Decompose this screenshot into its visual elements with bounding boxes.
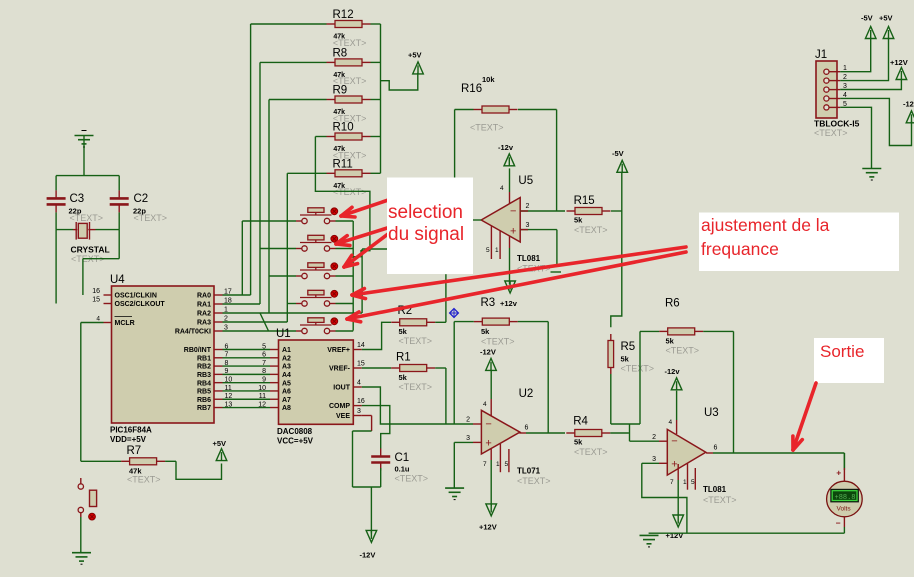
- svg-text:RB1: RB1: [197, 355, 211, 362]
- svg-text:RB7: RB7: [197, 405, 211, 412]
- svg-text:Sortie: Sortie: [820, 342, 864, 361]
- svg-text:VCC=+5V: VCC=+5V: [277, 437, 314, 446]
- svg-text:6: 6: [262, 352, 266, 359]
- pin A3 U1: [270, 364, 291, 371]
- wire VREF+ to R2: [362, 322, 391, 349]
- power +12V (J1): [890, 58, 908, 80]
- wire RA2 to RA4 diagonal: [260, 313, 269, 331]
- wire U2 pin3 to ground: [453, 442, 455, 488]
- svg-text:5k: 5k: [666, 337, 675, 346]
- indicator dot SW6: [89, 513, 96, 520]
- svg-text:<TEXT>: <TEXT>: [621, 364, 655, 374]
- wire J1 pin2 to +5V: [840, 38, 888, 81]
- svg-text:4: 4: [96, 316, 100, 323]
- svg-text:+: +: [836, 468, 841, 478]
- annotation arrow Sortie: [793, 383, 816, 450]
- svg-text:IOUT: IOUT: [333, 385, 350, 392]
- pin RA1 U4: [197, 298, 232, 309]
- pin A6 U1: [270, 389, 291, 396]
- svg-text:U3: U3: [704, 407, 719, 419]
- pin A8 U1: [270, 405, 291, 412]
- svg-text:6: 6: [525, 425, 529, 432]
- svg-text:−: −: [485, 419, 491, 431]
- wire RB1 to A2: [223, 352, 271, 359]
- svg-text:R1: R1: [396, 352, 411, 364]
- pins 1 5 U3 bottom: [683, 464, 695, 490]
- indicator dot SW4: [331, 290, 338, 297]
- svg-text:RA1: RA1: [197, 302, 211, 309]
- svg-text:RB4: RB4: [197, 380, 211, 387]
- svg-text:2: 2: [652, 434, 656, 441]
- svg-text:+12v: +12v: [500, 299, 518, 308]
- pin VEE U1: [336, 408, 362, 420]
- op-amp U2 TL071: [481, 410, 520, 454]
- svg-text:-5V: -5V: [612, 149, 624, 158]
- svg-text:-12V: -12V: [903, 100, 914, 109]
- resistor R3 5k: [454, 318, 548, 325]
- svg-text:12: 12: [258, 401, 266, 408]
- svg-text:15: 15: [357, 361, 365, 368]
- button SW1: [296, 208, 336, 224]
- svg-text:6: 6: [714, 445, 718, 452]
- svg-text:CRYSTAL: CRYSTAL: [71, 245, 110, 255]
- wire R4/R5/R6 junction to U3 pin2: [611, 424, 659, 441]
- wire IOUT to U2 pin2: [362, 387, 473, 424]
- svg-text:<TEXT>: <TEXT>: [127, 475, 161, 485]
- svg-text:<TEXT>: <TEXT>: [703, 495, 737, 505]
- power +5V (J1): [879, 14, 894, 39]
- svg-text:R4: R4: [573, 416, 588, 428]
- svg-text:A6: A6: [282, 389, 291, 396]
- svg-text:A5: A5: [282, 380, 291, 387]
- pin 3 U3: [642, 456, 668, 464]
- svg-text:+12V: +12V: [666, 531, 684, 540]
- svg-text:5: 5: [691, 479, 695, 486]
- svg-text:C3: C3: [70, 193, 85, 205]
- svg-text:A8: A8: [282, 405, 291, 412]
- annotation arrow selection 3: [344, 225, 400, 267]
- pin RB1 U4: [197, 352, 229, 363]
- wire switch to ground: [80, 517, 82, 553]
- svg-text:A3: A3: [282, 364, 291, 371]
- svg-text:-12V: -12V: [480, 348, 496, 357]
- svg-text:PIC16F84A: PIC16F84A: [110, 426, 152, 435]
- button SW3: [296, 263, 336, 279]
- svg-text:10: 10: [258, 385, 266, 392]
- capacitor C3: [47, 176, 66, 213]
- indicator dot SW1: [331, 208, 338, 215]
- wire R3 left down to pin2 node: [453, 322, 455, 424]
- svg-text:R9: R9: [333, 85, 348, 97]
- pin 7 U5 supply bottom: [509, 237, 511, 285]
- wire R2 right up to U5 output node: [445, 274, 447, 322]
- pin A5 U1: [270, 380, 291, 387]
- svg-text:RB0/INT: RB0/INT: [184, 347, 212, 354]
- voltmeter terminals: [836, 453, 845, 533]
- svg-text:R16: R16: [461, 83, 482, 95]
- resistor R5 5k: [608, 334, 614, 374]
- svg-text:U4: U4: [110, 274, 125, 286]
- wire U3 output to voltmeter: [706, 445, 844, 471]
- resistor R11 47k: [287, 170, 380, 177]
- svg-text:J1: J1: [815, 49, 827, 61]
- pin IOUT U1: [333, 380, 362, 392]
- svg-text:+12V: +12V: [479, 523, 497, 532]
- diamond marker: [450, 309, 459, 318]
- svg-text:<TEXT>: <TEXT>: [395, 474, 429, 484]
- svg-text:3: 3: [466, 435, 470, 442]
- pin VREF+ U1: [327, 342, 365, 354]
- wire RA4 to button SW5: [223, 330, 297, 332]
- svg-text:A2: A2: [282, 355, 291, 362]
- wire button output bus: [336, 221, 354, 331]
- wire -5V rail down to R5: [611, 211, 622, 327]
- svg-text:3: 3: [357, 408, 361, 415]
- svg-text:2: 2: [466, 417, 470, 424]
- svg-text:16: 16: [92, 288, 100, 295]
- power -12V U3: [665, 367, 682, 390]
- wire RB2 to A3: [223, 360, 271, 367]
- wire R1 right down to U2 pin2 node: [445, 368, 447, 424]
- op-amp U3 TL081: [667, 429, 706, 475]
- svg-text:RA2: RA2: [197, 311, 211, 318]
- annotation box selection du signal: [387, 178, 473, 275]
- svg-text:7: 7: [262, 360, 266, 367]
- svg-text:+5V: +5V: [879, 14, 893, 23]
- svg-text:1: 1: [496, 461, 500, 468]
- wire J1 pin5 to ground: [840, 107, 871, 168]
- wire rail to +5V: [381, 73, 418, 90]
- svg-text:+88.8: +88.8: [835, 494, 856, 502]
- svg-text:4: 4: [669, 419, 673, 426]
- svg-text:TBLOCK-I5: TBLOCK-I5: [814, 119, 860, 129]
- svg-text:+: +: [671, 458, 677, 470]
- svg-text:5k: 5k: [399, 373, 408, 382]
- svg-text:+5V: +5V: [408, 51, 422, 60]
- svg-text:R7: R7: [127, 445, 142, 457]
- pins 1 5 U5 bottom: [486, 226, 500, 259]
- wire J1 pin1 to -5V: [840, 38, 871, 72]
- pin A2 U1: [270, 355, 291, 362]
- svg-text:+5V: +5V: [213, 439, 227, 448]
- wire VREF- to R1: [362, 367, 391, 369]
- crystal X1: [73, 222, 96, 240]
- svg-text:0.1u: 0.1u: [395, 465, 410, 474]
- button SW2: [296, 235, 336, 251]
- wire RB7 to A8: [223, 401, 271, 408]
- svg-text:<TEXT>: <TEXT>: [333, 187, 367, 197]
- wire U3 pin3 to ground net: [642, 463, 687, 533]
- svg-text:8: 8: [262, 368, 266, 375]
- pin 4 U3 supply top: [669, 391, 677, 434]
- pins 1 5 U2 bottom: [496, 444, 509, 472]
- wire RA1 node: [223, 62, 261, 304]
- resistor R7 47k: [81, 458, 176, 465]
- svg-text:1: 1: [495, 247, 499, 254]
- resistor R12 47k: [251, 21, 381, 28]
- pin 2 U5: [520, 203, 565, 211]
- wire R16 right to U5 pin2: [556, 110, 558, 212]
- svg-text:A4: A4: [282, 372, 291, 379]
- svg-text:ajustement de la: ajustement de la: [701, 215, 830, 235]
- svg-text:−: −: [836, 518, 841, 528]
- pin 3 U5: [520, 222, 561, 272]
- pin RB6 U4: [197, 393, 232, 404]
- annotation arrow frequency 1: [352, 247, 686, 299]
- svg-text:C1: C1: [395, 452, 410, 464]
- svg-text:RB6: RB6: [197, 397, 211, 404]
- wire RB6 to A7: [223, 393, 271, 400]
- wire C2 bottom to OSC1: [83, 230, 119, 295]
- svg-text:+: +: [510, 226, 516, 238]
- power +5V (pull-up rail): [408, 51, 423, 74]
- wire R6 right down to U3 output: [733, 331, 735, 453]
- pin 2 U2: [466, 417, 481, 425]
- pin RB2 U4: [197, 360, 229, 371]
- svg-text:RB2: RB2: [197, 364, 211, 371]
- svg-text:+: +: [485, 437, 491, 449]
- wire SW1 left: [242, 220, 296, 222]
- svg-text:5: 5: [505, 461, 509, 468]
- svg-text:R12: R12: [333, 9, 354, 21]
- svg-text:+12V: +12V: [890, 58, 908, 67]
- pin RA3 U4: [197, 316, 228, 327]
- pin MCLR U4: [96, 316, 134, 328]
- power -12V (DAC): [360, 530, 377, 559]
- pin OSC1/CLKIN U4: [92, 288, 157, 300]
- wire U5 output: [473, 219, 481, 221]
- wire SW4 left: [287, 303, 296, 305]
- svg-text:9: 9: [262, 376, 266, 383]
- wire VEE route: [353, 416, 381, 488]
- wire C1 node to -12V: [370, 487, 372, 533]
- resistor R2 5k: [391, 319, 446, 326]
- svg-text:VREF+: VREF+: [327, 347, 350, 354]
- button SW4: [296, 290, 336, 306]
- annotation arrow selection 2: [336, 224, 400, 245]
- svg-text:<TEXT>: <TEXT>: [470, 123, 504, 133]
- svg-text:VDD=+5V: VDD=+5V: [110, 435, 147, 444]
- resistor R16 10k: [455, 106, 557, 113]
- svg-text:1: 1: [683, 479, 687, 486]
- resistor R15 5k: [567, 208, 622, 215]
- pin 3 U2: [454, 435, 481, 442]
- pin RB7 U4: [197, 401, 232, 412]
- svg-text:R10: R10: [333, 122, 354, 134]
- voltmeter: [827, 481, 863, 517]
- svg-text:A1: A1: [282, 347, 291, 354]
- power +12V U5: [500, 281, 518, 308]
- svg-text:2: 2: [526, 203, 530, 210]
- svg-text:R11: R11: [333, 159, 353, 171]
- pin 4 U5 supply top: [500, 168, 510, 204]
- switch SW6 (reset): [78, 478, 96, 517]
- pin RA4/T0CKI U4: [175, 325, 228, 336]
- connector J1 TBLOCK-I5: [816, 61, 840, 118]
- indicator dot SW2: [331, 235, 338, 242]
- svg-text:-12V: -12V: [360, 551, 376, 560]
- svg-text:3: 3: [526, 222, 530, 229]
- wire J1 pin4 to -12V: [840, 98, 911, 145]
- svg-text:5k: 5k: [574, 438, 583, 447]
- pin RB5 U4: [197, 385, 232, 396]
- svg-text:frequance: frequance: [701, 239, 779, 259]
- wire cap top rail: [56, 175, 119, 177]
- resistor R4 5k: [566, 430, 629, 437]
- svg-text:4: 4: [500, 185, 504, 192]
- svg-text:<TEXT>: <TEXT>: [574, 225, 608, 235]
- svg-text:<TEXT>: <TEXT>: [481, 337, 515, 347]
- annotation text selection du signal: [388, 202, 464, 245]
- svg-text:5: 5: [486, 247, 490, 254]
- resistor R9 47k: [269, 96, 381, 103]
- wire RA3 node: [223, 173, 288, 322]
- pin VREF- U1: [329, 361, 365, 373]
- wire output bottom return: [649, 532, 845, 534]
- wire R6 left down: [639, 331, 641, 424]
- ground (crystal bias network): [75, 136, 94, 148]
- wire R3 right down to U2 output: [547, 322, 549, 433]
- pin COMP U1: [329, 398, 365, 410]
- power -12V U5: [498, 143, 515, 166]
- svg-text:−: −: [671, 436, 677, 448]
- pin RA0 U4: [197, 289, 232, 300]
- wire COMP to C1: [362, 406, 390, 449]
- svg-text:R8: R8: [333, 48, 348, 60]
- svg-text:RA3: RA3: [197, 320, 211, 327]
- wire RB4 to A5: [223, 376, 271, 383]
- svg-text:11: 11: [259, 393, 266, 400]
- svg-text:<TEXT>: <TEXT>: [399, 382, 433, 392]
- svg-text:<TEXT>: <TEXT>: [574, 447, 608, 457]
- power +12V U2: [479, 504, 497, 532]
- wire ground stem to cap top rail: [83, 136, 85, 176]
- pin A4 U1: [270, 372, 291, 379]
- capacitor C1 0.1u: [371, 449, 390, 488]
- svg-text:COMP: COMP: [329, 403, 350, 410]
- power +12V U3: [666, 515, 684, 540]
- svg-text:3: 3: [652, 456, 656, 463]
- svg-text:VREF-: VREF-: [329, 366, 351, 373]
- svg-text:<TEXT>: <TEXT>: [70, 213, 104, 223]
- svg-text:selection: selection: [388, 202, 463, 223]
- wire RB3 to A4: [223, 368, 271, 375]
- svg-text:du signal: du signal: [388, 224, 464, 245]
- pin RB3 U4: [197, 368, 229, 379]
- power +5V (R7): [213, 439, 227, 461]
- button SW5: [296, 318, 336, 334]
- wire RA0 node: [223, 24, 251, 295]
- wire C3 bottom to OSC2: [55, 230, 57, 304]
- capacitor C2: [110, 176, 129, 213]
- pin RA2 U4: [197, 307, 228, 318]
- svg-text:5k: 5k: [574, 216, 583, 225]
- svg-text:-12v: -12v: [665, 367, 681, 376]
- svg-text:7: 7: [483, 461, 487, 468]
- annotation box ajustement: [699, 213, 899, 272]
- annotation arrow frequency 2: [347, 252, 686, 322]
- ground (output): [640, 535, 659, 547]
- op-amp U5 TL081: [481, 198, 520, 243]
- svg-text:RA0: RA0: [197, 293, 211, 300]
- svg-text:7: 7: [670, 479, 674, 486]
- IC U4 PIC16F84A: [112, 286, 215, 423]
- wire R16 left to U5 output: [454, 110, 456, 178]
- svg-text:TL081: TL081: [517, 254, 541, 263]
- wire R10 left route: [315, 137, 370, 257]
- svg-text:<TEXT>: <TEXT>: [666, 346, 700, 356]
- power -12V (J1): [903, 100, 914, 123]
- power -5V (J1): [861, 14, 876, 39]
- svg-text:TL071: TL071: [517, 467, 541, 476]
- svg-text:A7: A7: [282, 397, 291, 404]
- resistor R1 5k: [391, 365, 446, 372]
- IC U1 DAC0808: [279, 340, 354, 424]
- svg-text:5k: 5k: [399, 327, 408, 336]
- wire MCLR net: [81, 323, 104, 462]
- wire RA2 node: [223, 100, 388, 314]
- svg-text:R6: R6: [665, 298, 680, 310]
- wire SW2 left: [260, 248, 296, 250]
- svg-text:DAC0808: DAC0808: [277, 427, 313, 436]
- svg-text:R15: R15: [574, 195, 595, 207]
- svg-text:-5V: -5V: [861, 14, 873, 23]
- svg-text:4: 4: [483, 401, 487, 408]
- annotation box Sortie: [814, 338, 884, 383]
- svg-text:14: 14: [357, 342, 365, 349]
- svg-text:VEE: VEE: [336, 413, 350, 420]
- svg-text:RB5: RB5: [197, 389, 211, 396]
- pin 7 U2 supply bottom: [483, 448, 491, 506]
- svg-text:C2: C2: [134, 193, 149, 205]
- svg-text:<TEXT>: <TEXT>: [517, 476, 551, 486]
- ground (J1): [862, 169, 881, 181]
- svg-text:Volts: Volts: [837, 506, 852, 513]
- pin RB4 U4: [197, 376, 232, 387]
- wire R7 to +5V: [176, 461, 222, 479]
- ground (reset switch): [72, 553, 91, 565]
- svg-text:OSC2/CLKOUT: OSC2/CLKOUT: [115, 301, 166, 308]
- pin OSC2/CLKOUT U4: [92, 297, 165, 309]
- wire pull-up rail right: [380, 24, 382, 173]
- pin 7 U3 supply bottom: [670, 464, 678, 515]
- svg-text:<TEXT>: <TEXT>: [814, 128, 848, 138]
- svg-text:RA4/T0CKI: RA4/T0CKI: [175, 329, 211, 336]
- wire RB5 to A6: [223, 385, 271, 392]
- wire crystal row: [56, 212, 119, 229]
- svg-text:5k: 5k: [621, 355, 630, 364]
- resistor R8 47k: [260, 59, 381, 66]
- ground (U2 pin3): [445, 488, 464, 500]
- svg-text:<TEXT>: <TEXT>: [399, 336, 433, 346]
- svg-text:10k: 10k: [482, 75, 495, 84]
- svg-text:16: 16: [357, 398, 365, 405]
- svg-text:U2: U2: [519, 388, 534, 400]
- annotation text ajustement: [701, 215, 830, 259]
- pin A1 U1: [270, 347, 291, 354]
- pin 4 U2 supply top: [483, 371, 491, 416]
- wire J1 pin3 to +12V: [840, 79, 901, 90]
- svg-text:−: −: [510, 206, 516, 218]
- indicator dot SW3: [331, 263, 338, 270]
- power -12V U2: [480, 348, 496, 371]
- annotation arrow selection 1: [341, 196, 400, 217]
- wire U2 output: [519, 425, 565, 434]
- svg-text:4: 4: [357, 380, 361, 387]
- svg-text:OSC1/CLKIN: OSC1/CLKIN: [115, 293, 157, 300]
- resistor R6 5k: [640, 328, 734, 335]
- svg-text:U5: U5: [518, 175, 533, 187]
